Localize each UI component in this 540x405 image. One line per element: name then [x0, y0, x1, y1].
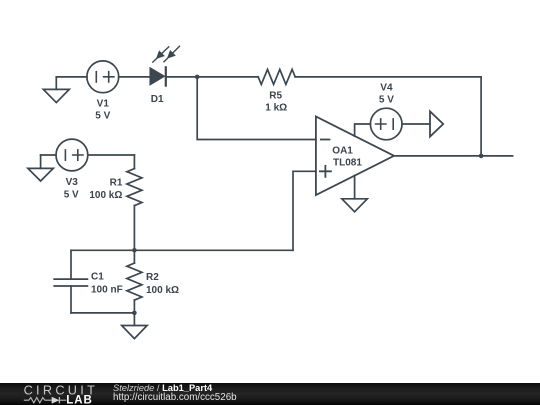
- wire op-amp V+ pin to V4: [355, 124, 371, 136]
- wire op-amp V- pin to ground: [354, 176, 356, 199]
- ground GND3 (left of V3): [28, 155, 53, 181]
- op-amp OA1 triangle: [316, 117, 394, 196]
- svg-text:LAB: LAB: [66, 395, 93, 405]
- svg-text:R5: R5: [269, 91, 282, 102]
- node C junction: [132, 248, 137, 253]
- footer bar: [0, 383, 540, 405]
- wire ground to V1: [56, 76, 87, 78]
- node A junction: [195, 75, 200, 80]
- svg-text:5 V: 5 V: [379, 95, 394, 106]
- ground GND4 (bottom): [122, 313, 147, 339]
- svg-text:R2: R2: [146, 272, 159, 283]
- wire R5 to node B (top-right corner): [295, 77, 481, 156]
- footer url text: [113, 392, 237, 403]
- voltage source V4: [370, 108, 402, 140]
- wire V4 to output port: [402, 123, 430, 125]
- svg-text:V3: V3: [66, 177, 79, 188]
- svg-text:V1: V1: [97, 99, 110, 110]
- svg-text:OA1: OA1: [332, 146, 353, 157]
- svg-text:1 kΩ: 1 kΩ: [265, 103, 287, 114]
- svg-text:100 nF: 100 nF: [91, 285, 123, 296]
- op-amp plus sign: [320, 166, 331, 177]
- svg-text:5 V: 5 V: [95, 111, 110, 122]
- op-amp minus sign: [321, 139, 330, 141]
- svg-text:D1: D1: [151, 94, 164, 105]
- ground GND1 (top-left): [43, 77, 69, 103]
- op-amp output wire: [394, 155, 513, 157]
- wire V3 to R1: [88, 154, 135, 156]
- svg-text:100 kΩ: 100 kΩ: [146, 285, 179, 296]
- ground GND2 (below op-amp): [342, 199, 367, 212]
- footer title text: [113, 383, 212, 393]
- node D junction: [132, 311, 137, 316]
- svg-text:TL081: TL081: [333, 158, 362, 169]
- svg-text:R1: R1: [110, 177, 123, 188]
- capacitor C1: [54, 250, 87, 313]
- mid rail wire: [71, 249, 293, 251]
- wire V1 to D1: [119, 76, 151, 78]
- svg-text:C1: C1: [91, 272, 104, 283]
- bottom wire C1 to R2: [71, 312, 134, 314]
- wire D1 to node A: [166, 76, 197, 78]
- svg-text:5 V: 5 V: [64, 190, 79, 201]
- CircuitLab logo: [0, 383, 100, 405]
- resistor R2: [127, 250, 142, 313]
- wire op-amp noninverting input from mid rail: [293, 171, 316, 250]
- photodiode D1: [150, 46, 179, 85]
- wire node A to R5: [197, 76, 258, 78]
- voltage source V1: [87, 61, 119, 93]
- wire ground to V3: [41, 154, 56, 156]
- output port flag: [430, 111, 443, 136]
- svg-text:V4: V4: [380, 83, 393, 94]
- resistor R5: [258, 69, 295, 84]
- node B junction: [479, 154, 484, 159]
- feedback wire node A to op-amp inverting input: [197, 77, 316, 140]
- svg-text:100 kΩ: 100 kΩ: [89, 190, 122, 201]
- voltage source V3: [56, 139, 88, 171]
- resistor R1: [127, 155, 142, 250]
